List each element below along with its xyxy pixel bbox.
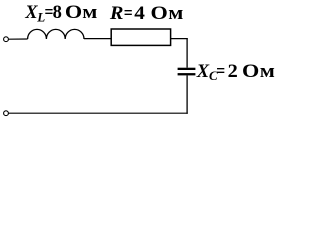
wire: right vertical upper (corner to capacitor) (186, 38, 188, 68)
svg-text:X: X (24, 3, 38, 23)
svg-text:R: R (109, 4, 124, 24)
inductor XL (3 loops) (28, 29, 84, 39)
svg-text:Ом: Ом (65, 3, 98, 23)
svg-text:X: X (196, 62, 210, 82)
svg-text:=: = (216, 61, 225, 81)
svg-text:Ом: Ом (151, 4, 184, 24)
svg-text:2: 2 (228, 62, 238, 82)
svg-text:Ом: Ом (242, 61, 275, 81)
terminal top-left (4, 37, 9, 42)
wire: resistor to top-right corner (171, 38, 188, 40)
capacitor XC bottom plate (178, 73, 196, 75)
capacitor XC top plate (178, 68, 196, 70)
wire: bottom (8, 112, 187, 114)
wire: top-left terminal to inductor (8, 38, 27, 40)
svg-text:=: = (124, 3, 133, 23)
svg-text:8: 8 (53, 3, 62, 23)
resistor R (rectangle) (111, 29, 170, 45)
terminal bottom-left (4, 111, 9, 116)
wire: inductor to resistor (84, 38, 111, 40)
svg-text:4: 4 (134, 3, 145, 23)
wire: right vertical lower (capacitor to bottom corner) (186, 75, 188, 113)
